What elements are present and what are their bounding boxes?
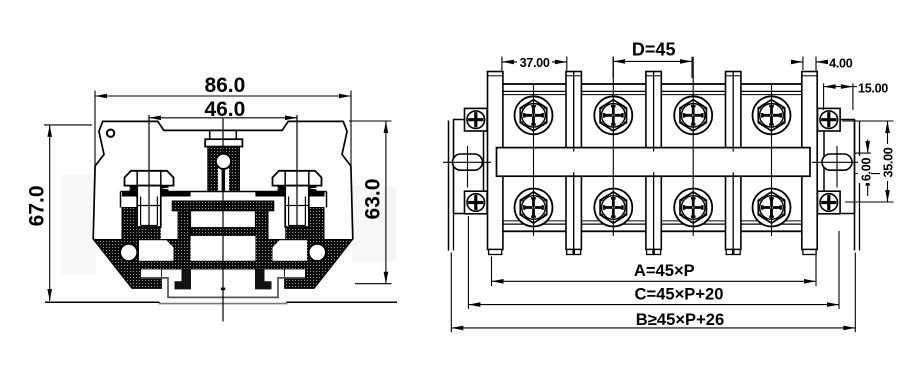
top view: left mounting bracket plate (454, 120, 484, 214)
faint background patch left (62, 175, 96, 275)
dimension 6.00 (855, 152, 871, 154)
left view: right mounting hole (309, 244, 326, 261)
left view: small round hole top-left (107, 130, 114, 137)
left view: left spring washer (130, 185, 169, 191)
top view: terminal screw 2 (594, 96, 632, 134)
left view: rail grip foot right (255, 269, 272, 290)
left view: clamp bar left (black) (122, 192, 191, 197)
top view: wall 5 foot (803, 250, 816, 255)
top view: pole 3 centre line (692, 57, 694, 236)
din rail: left flange line (45, 301, 160, 303)
left view: right bolt housing walls (309, 208, 324, 241)
svg-text:46.0: 46.0 (204, 98, 245, 121)
left view: clamp plate white band (121, 192, 327, 211)
left view: right bolt cavity floor (285, 227, 309, 240)
top view: body inner top line (492, 90, 817, 92)
top view: wall 2 foot (567, 250, 573, 255)
dimension C=45xP+20 (467, 216, 469, 309)
svg-text:86.0: 86.0 (204, 74, 245, 97)
left view: rail flange slot left (141, 269, 161, 277)
svg-text:4.00: 4.00 (829, 56, 853, 70)
left view: left hex bolt head (125, 171, 174, 186)
left view: body outline (93, 121, 353, 288)
dimension 86.0 (94, 91, 96, 169)
top view: left bracket slot (453, 154, 483, 170)
top view: terminal screw 8 (753, 189, 791, 227)
svg-text:D=45: D=45 (632, 40, 676, 60)
top view: terminal screw 3 (674, 96, 712, 134)
svg-text:6.00: 6.00 (860, 158, 874, 182)
svg-text:15.00: 15.00 (858, 82, 888, 96)
top view: barrier wall 4 (726, 72, 741, 250)
top view: barrier wall 2 (566, 72, 581, 250)
left view: right bolt shaft (285, 186, 309, 227)
top view: pole 2 centre line (612, 57, 614, 236)
top view: wall 1 foot (489, 250, 502, 255)
top view: din rail left edge (448, 121, 450, 251)
left view: left mounting hole (120, 244, 137, 261)
left view: current bar centre (black) (172, 201, 274, 211)
faint background patch right (352, 186, 396, 262)
left view: clamp bar right (black) (255, 192, 324, 197)
left view: centre post neck (209, 130, 211, 139)
top view: terminal screw 6 (594, 189, 632, 227)
dimension 67.0 (44, 124, 92, 126)
top view: din rail right edge (854, 121, 856, 251)
dimension A=45xP (491, 257, 493, 287)
dimension D=45 (612, 57, 614, 79)
top view: pole 1 centre line (533, 84, 535, 236)
top view: left bracket screw top (465, 108, 488, 131)
top view: terminal screw 5 (515, 189, 553, 227)
top view: pole 4 centre line (771, 84, 773, 236)
dimension 4.00 (802, 57, 804, 71)
left view: bottom band (black) (116, 261, 330, 269)
left view: left bolt shaft (137, 186, 161, 227)
top view: terminal screw 4 (753, 96, 791, 134)
top view: barrier wall 3 (646, 72, 661, 250)
top view: right mounting bracket plate (824, 120, 855, 214)
dimension 35.00 (842, 120, 894, 122)
top view: wall 4 foot (726, 250, 732, 255)
left view: centre post slot (218, 168, 229, 194)
svg-text:37.00: 37.00 (520, 56, 550, 70)
left view: right pillar (black) (255, 211, 268, 269)
left view: left bolt cavity floor (137, 227, 161, 240)
left view: bottom hatched mass (94, 240, 352, 289)
svg-text:35.00: 35.00 (882, 147, 896, 177)
top view: right bracket horizontal centre line (812, 161, 862, 163)
top view: left bracket centre lines (467, 146, 469, 188)
left view: centre post cap (205, 139, 242, 146)
left view: left bolt housing walls (122, 208, 137, 241)
top view: terminal screw 7 (674, 189, 712, 227)
top view: right bracket centre lines (836, 146, 838, 188)
top view: right bracket screw bottom (818, 191, 841, 214)
top view: body outline (492, 84, 817, 231)
top view: barrier wall 1 (488, 72, 503, 250)
left view: centre cavity (191, 236, 256, 261)
left view: left bolt axis line (148, 115, 150, 230)
left view: centre post round hole (216, 154, 231, 169)
left view: right pocket (273, 240, 308, 260)
left view: centre post hatched block (208, 147, 239, 194)
svg-text:A=45×P: A=45×P (634, 261, 695, 280)
top view: left bracket horizontal centre line (443, 161, 491, 163)
top view: terminal screw 1 (515, 96, 553, 134)
top view: barrier wall 5 (802, 72, 817, 250)
din rail: right flange line (287, 301, 398, 303)
dimension B>=45xP+26 (450, 253, 452, 333)
top view: left bracket screw bottom (465, 191, 488, 214)
top view: right bracket screw top (818, 108, 841, 131)
left view: left pocket (139, 240, 174, 260)
din rail: inner profile (141, 278, 305, 298)
svg-text:B≥45×P+26: B≥45×P+26 (636, 310, 724, 329)
top view: right bracket slot (822, 154, 852, 170)
dimension 15.00 (823, 83, 825, 110)
left view: centre post round hole (over centre line) (216, 154, 231, 169)
dimension 46.0 (149, 117, 297, 119)
left view: right hex bolt head (273, 171, 322, 186)
left view: rail grip foot left (175, 269, 192, 290)
dimension 63.0 (349, 120, 392, 122)
dimension 37.00 (501, 57, 503, 71)
top view: centre band (497, 148, 811, 177)
svg-text:C=45×P+20: C=45×P+20 (634, 285, 723, 304)
left view: cross bar (black) (191, 228, 256, 236)
left view: right bolt axis line (296, 115, 298, 230)
top view: wall 3 foot (647, 250, 653, 255)
svg-text:63.0: 63.0 (362, 179, 385, 220)
din rail: outer bottom (160, 302, 287, 303)
left view: right spring washer (278, 185, 317, 191)
left view: rail flange slot right (285, 269, 305, 277)
svg-text:67.0: 67.0 (26, 185, 49, 226)
left view: vertical centre line (222, 118, 224, 322)
top view: body inner bottom line (492, 220, 817, 222)
left view: left pillar (black) (178, 211, 191, 269)
